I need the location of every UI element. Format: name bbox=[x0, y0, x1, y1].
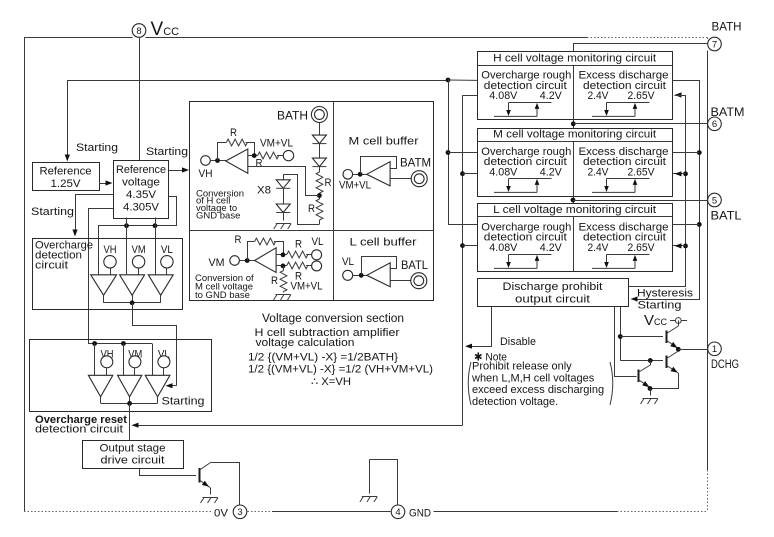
wire reset out bus bbox=[101, 403, 158, 405]
wire bus2 to M box left bbox=[463, 173, 478, 175]
svg-text:VM: VM bbox=[209, 257, 225, 269]
svg-text:VM+VL: VM+VL bbox=[291, 281, 323, 293]
border right solid bbox=[707, 51, 709, 471]
junction BATL stub bbox=[571, 198, 576, 203]
terminal VM+VL (M amp) bbox=[312, 261, 322, 271]
resistor R to VM+VL (M) bbox=[287, 262, 308, 269]
pin 5 BATL bbox=[708, 193, 722, 207]
terminal VM+VL buffer input bbox=[343, 170, 353, 180]
block Reference 1.25V bbox=[33, 163, 100, 191]
svg-text:detection voltage.: detection voltage. bbox=[472, 396, 558, 408]
Q1 collector bbox=[667, 326, 679, 334]
arrow into reference voltage box bbox=[106, 180, 113, 185]
terminal BATL bbox=[411, 273, 427, 289]
wire 4.305V tap down to overcharge reset ref bbox=[89, 209, 114, 344]
arrow into reference 1.25V box bbox=[65, 155, 70, 162]
wire VL reset out bbox=[157, 397, 159, 404]
junction DCHG node bbox=[676, 347, 681, 352]
wire X8 chain top to divider bottom bbox=[283, 175, 319, 225]
wire VH to op-amp bbox=[210, 160, 225, 162]
arrow into discharge prohibit box (hysteresis) bbox=[631, 296, 638, 301]
svg-text:6: 6 bbox=[712, 119, 717, 130]
wire into M buffer bbox=[353, 174, 367, 176]
svg-text:2.4V: 2.4V bbox=[588, 166, 610, 178]
wire L buffer feedback bbox=[362, 257, 397, 276]
wire Q1 base bbox=[620, 336, 663, 338]
svg-text:1/2 {(VM+VL) -X} =1/2 (VH+VM+V: 1/2 {(VM+VL) -X} =1/2 (VH+VM+VL) bbox=[248, 364, 433, 376]
Q3 emitter bbox=[638, 380, 650, 388]
wire M buffer feedback bbox=[361, 157, 397, 175]
stub VL circle to comparator bbox=[166, 268, 168, 275]
stub VM reset bbox=[134, 368, 136, 376]
wire to ground bbox=[650, 389, 652, 396]
Q1 base bar bbox=[666, 331, 668, 344]
terminal BATH bbox=[311, 107, 327, 123]
resistor R divider lower bbox=[316, 199, 323, 220]
wire L hysteresis arrow bbox=[672, 245, 686, 247]
stub H box to M box bbox=[573, 119, 575, 128]
block Overcharge detection circuit bbox=[33, 239, 183, 310]
block Output stage drive circuit bbox=[83, 441, 184, 469]
wire VL comp out bbox=[160, 295, 162, 303]
border top dotted segment bbox=[587, 37, 707, 39]
svg-text:drive circuit: drive circuit bbox=[101, 455, 165, 467]
svg-text:R: R bbox=[295, 239, 302, 251]
wire M feedback right leg bbox=[274, 242, 284, 255]
wire reset out to output stage bbox=[129, 403, 131, 440]
wire op-amp to summing resistor bbox=[248, 155, 258, 157]
wire starting drop to reference 1.25V box bbox=[67, 80, 69, 155]
border left bbox=[24, 38, 26, 512]
wire GND stub to pin 4 bbox=[369, 460, 397, 505]
border right dotted segment bbox=[707, 470, 709, 512]
wire BATM to pin 6 bbox=[573, 123, 707, 125]
svg-text:L cell voltage monitoring circ: L cell voltage monitoring circuit bbox=[493, 204, 656, 216]
svg-text:2.4V: 2.4V bbox=[588, 90, 610, 102]
wire to Q1/Q2 base bbox=[620, 307, 622, 361]
terminal BATM bbox=[411, 171, 427, 187]
svg-text:H cell voltage monitoring circ: H cell voltage monitoring circuit bbox=[493, 53, 656, 65]
diode X8 upper bbox=[276, 180, 290, 189]
svg-text:R: R bbox=[325, 177, 332, 189]
wire H op-amp output to divider mid bbox=[248, 167, 320, 196]
wire starting tap 4.35V left to overcharge detection bbox=[76, 195, 114, 232]
wire output stage to Q4 base bbox=[140, 469, 197, 476]
svg-text:BATL: BATL bbox=[401, 260, 429, 272]
wire ref box bottom stub 1 down to comparator bbox=[126, 218, 128, 275]
wire VCC vertical from pin 8 to reference voltage box bbox=[139, 37, 141, 160]
terminal VM conversion input bbox=[230, 256, 240, 266]
wire Q4 emitter to ground bbox=[210, 488, 212, 495]
border bottom dotted mid bbox=[248, 511, 273, 513]
terminal VM comparator input bbox=[132, 256, 144, 268]
junction reset out bbox=[127, 401, 132, 406]
svg-text:voltage: voltage bbox=[122, 177, 160, 189]
wire reference voltage output to conversion box bbox=[169, 170, 185, 172]
svg-text:R: R bbox=[308, 203, 315, 215]
svg-text:VM+VL: VM+VL bbox=[260, 138, 293, 150]
svg-text:DCHG: DCHG bbox=[711, 359, 739, 371]
wire VM to op-amp bbox=[239, 260, 254, 262]
wire bus1 to M box left bbox=[448, 152, 477, 154]
wire L buffer output bbox=[390, 280, 411, 282]
comparator VL reset bbox=[145, 375, 170, 397]
junction line A / M arrow bbox=[683, 171, 688, 176]
arrow into reset comparator (Starting) bbox=[166, 383, 173, 388]
stub VM circle to comparator bbox=[138, 268, 140, 275]
diode D1 bbox=[312, 135, 326, 144]
svg-text:output circuit: output circuit bbox=[515, 294, 590, 306]
wire bus2 to L box left bbox=[463, 245, 478, 247]
wire M op-amp to VM+VL resistor bbox=[276, 265, 287, 267]
block Reference voltage 4.35V/4.305V bbox=[114, 161, 169, 219]
junction Q2/Q3 emitters bbox=[648, 386, 653, 391]
junction M out lower bbox=[281, 264, 286, 269]
divider vertical of conversion box bbox=[333, 102, 335, 301]
svg-text:8: 8 bbox=[136, 26, 141, 37]
terminal VCC discharge bbox=[670, 320, 687, 322]
op-amp U3 M cell buffer bbox=[367, 162, 390, 186]
wire to ground symbol bbox=[369, 460, 371, 494]
note parentheses bbox=[468, 362, 471, 405]
Q1 emitter bbox=[667, 341, 679, 349]
wire M hysteresis arrow bbox=[672, 173, 686, 175]
resistor R feedback M bbox=[255, 238, 276, 245]
wire rail into H box left bbox=[448, 79, 477, 81]
svg-text:Voltage conversion section: Voltage conversion section bbox=[262, 313, 404, 325]
border bottom dotted left bbox=[24, 511, 212, 513]
wire M op-amp to VL resistor bbox=[276, 254, 287, 256]
junction bus2 to L box bbox=[460, 243, 465, 248]
svg-text:detection circuit: detection circuit bbox=[35, 424, 123, 436]
border top-right dotted corner bbox=[707, 38, 709, 42]
wire bus2 bottom run to overcharge reset output bbox=[134, 425, 463, 427]
junction line B / L box tap bbox=[697, 222, 702, 227]
svg-text:BATH: BATH bbox=[712, 22, 742, 34]
block Overcharge reset detection circuit bbox=[30, 340, 212, 412]
wire line B (starting) H box to discharge prohibit bbox=[634, 81, 700, 300]
wire M box tap to line B bbox=[672, 152, 699, 154]
svg-text:R: R bbox=[256, 158, 263, 170]
terminal VH conversion input bbox=[201, 156, 211, 166]
junction bus1 / starting rail bbox=[446, 78, 451, 83]
Q2 emitter bbox=[667, 366, 679, 374]
terminal VH reset input bbox=[101, 356, 113, 368]
arrow into overcharge detection box bbox=[72, 230, 77, 237]
svg-text:1.25V: 1.25V bbox=[51, 178, 82, 190]
wire feedback right leg bbox=[246, 143, 255, 156]
svg-text:M cell voltage monitoring circ: M cell voltage monitoring circuit bbox=[493, 129, 656, 141]
junction BATM stub bbox=[571, 121, 576, 126]
svg-text:VCC: VCC bbox=[644, 312, 668, 329]
terminal VH comparator input bbox=[104, 256, 116, 268]
svg-text:when L,M,H cell voltages: when L,M,H cell voltages bbox=[471, 372, 595, 384]
wire into L buffer bbox=[353, 275, 367, 277]
pin 7 BATH bbox=[708, 37, 722, 51]
svg-text:Prohibit release only: Prohibit release only bbox=[472, 361, 572, 373]
wire overcharge out to reset starting input bbox=[133, 303, 177, 386]
junction reset ref VM bbox=[121, 341, 126, 346]
Q4 base bar bbox=[199, 468, 201, 483]
resistor R to VL bbox=[287, 251, 308, 258]
svg-text:voltage calculation: voltage calculation bbox=[256, 337, 355, 349]
svg-text:Reference: Reference bbox=[116, 164, 166, 176]
wire 4.305V ref rail in reset box bbox=[88, 343, 152, 345]
wire ref box bottom stub 2 down to comparator bbox=[155, 218, 157, 275]
svg-text:VL: VL bbox=[342, 256, 354, 268]
svg-text:Starting: Starting bbox=[31, 206, 74, 218]
svg-text:4.2V: 4.2V bbox=[540, 90, 563, 102]
terminal VM+VL (H amp) bbox=[283, 150, 293, 160]
pin 3 0V bbox=[233, 505, 247, 519]
junction Q1 base tap bbox=[618, 334, 623, 339]
comparator VH reset bbox=[88, 375, 112, 397]
svg-text:GND: GND bbox=[409, 508, 431, 520]
svg-text:2.4V: 2.4V bbox=[588, 242, 610, 254]
svg-text:7: 7 bbox=[712, 39, 717, 50]
svg-text:4.08V: 4.08V bbox=[489, 242, 518, 254]
Q2 collector bbox=[667, 351, 679, 359]
wire ref to reset comp VM bbox=[123, 344, 125, 376]
junction VM feedback bbox=[245, 258, 250, 263]
wire to pin 1 bbox=[678, 349, 707, 351]
block M cell voltage monitoring circuit bbox=[478, 129, 673, 197]
junction Q3 collector / Q2 base bbox=[648, 358, 653, 363]
op-amp U1 H-cell subtraction bbox=[226, 149, 248, 173]
stub M box to L box bbox=[573, 196, 575, 204]
svg-text:Starting: Starting bbox=[162, 396, 205, 408]
svg-text:Output stage: Output stage bbox=[100, 443, 166, 455]
svg-text:4.2V: 4.2V bbox=[540, 242, 563, 254]
arrow into H box excess discharge bbox=[675, 92, 682, 97]
wire M feedback left leg bbox=[248, 242, 255, 261]
wire to Q3 base bbox=[614, 307, 616, 376]
svg-text:2.65V: 2.65V bbox=[628, 90, 656, 102]
pin 8 VCC bbox=[132, 24, 146, 38]
svg-text:1/2 {(VM+VL) -X} =1/2BATH}: 1/2 {(VM+VL) -X} =1/2BATH} bbox=[248, 352, 398, 364]
arrow into bus2 (Disable) bbox=[465, 344, 472, 349]
wire bus1 to L box left bbox=[448, 224, 477, 226]
resistor R to ground (M amp) bbox=[280, 271, 287, 292]
svg-text:L cell buffer: L cell buffer bbox=[350, 237, 417, 249]
diode X8 lower bbox=[276, 204, 290, 213]
block voltage conversion section bbox=[190, 102, 434, 301]
wire D1 to D2 bbox=[319, 144, 321, 159]
Q3 collector bbox=[638, 365, 650, 373]
comparator VM overcharge bbox=[120, 275, 145, 296]
wire Q2 emitter to ground node bbox=[650, 373, 679, 389]
svg-text:Starting: Starting bbox=[638, 300, 682, 312]
border bottom solid right bbox=[434, 511, 618, 513]
svg-text:to GND base: to GND base bbox=[195, 290, 250, 301]
junction L buffer feedback bbox=[359, 273, 364, 278]
svg-text:5: 5 bbox=[712, 195, 717, 206]
pin 6 BATM bbox=[708, 117, 722, 131]
junction M out upper bbox=[281, 252, 286, 257]
wire VM comp out bbox=[132, 295, 134, 303]
junction VH feedback bbox=[215, 158, 220, 163]
terminal VL buffer input bbox=[343, 270, 353, 280]
wire disable to bus2 bbox=[467, 307, 492, 347]
svg-text:2.65V: 2.65V bbox=[628, 166, 656, 178]
svg-text:1: 1 bbox=[712, 344, 717, 355]
comparator VL overcharge bbox=[148, 275, 173, 296]
wire 4.35V tap to comparator refs bbox=[99, 197, 177, 275]
wire ref to reset comp VL bbox=[152, 344, 154, 376]
wire M buffer output bbox=[390, 178, 411, 180]
terminal VL comparator input bbox=[161, 256, 173, 268]
wire Q2 base bbox=[620, 360, 663, 362]
junction overcharge out bbox=[130, 300, 135, 305]
svg-text:VH: VH bbox=[199, 168, 213, 180]
wire D2 to R bbox=[319, 167, 321, 172]
svg-text:4.305V: 4.305V bbox=[123, 202, 160, 214]
wire BATL to pin 5 bbox=[573, 200, 708, 202]
wire VM reset out bbox=[129, 397, 131, 404]
comparator VM reset bbox=[118, 375, 142, 397]
junction H out / feedback bbox=[252, 153, 257, 158]
svg-text:Hysteresis: Hysteresis bbox=[637, 288, 694, 300]
resistor R to VM+VL bbox=[258, 152, 279, 159]
svg-text:Starting: Starting bbox=[146, 146, 188, 158]
terminal VL reset input bbox=[158, 356, 170, 368]
border bottom solid to pin4 bbox=[272, 511, 391, 513]
wire ref to reset comp VH bbox=[94, 344, 96, 376]
wire to X8 diodes bbox=[283, 174, 285, 179]
divider horizontal of conversion box bbox=[190, 230, 435, 232]
svg-text:Disable: Disable bbox=[500, 336, 536, 348]
svg-text:VL: VL bbox=[312, 236, 324, 248]
svg-text:0V: 0V bbox=[214, 508, 229, 520]
border top left segment bbox=[24, 37, 133, 39]
junction line B / M box tap bbox=[697, 150, 702, 155]
wire bus2 vertical (disable net) bbox=[462, 95, 464, 425]
border bottom dotted right bbox=[617, 511, 707, 513]
svg-text:∴ X=VH: ∴ X=VH bbox=[311, 376, 351, 388]
svg-text:M cell buffer: M cell buffer bbox=[349, 136, 419, 148]
ground below Q2/Q3 bbox=[643, 398, 658, 400]
svg-text:4.08V: 4.08V bbox=[489, 90, 518, 102]
svg-text:VM+VL: VM+VL bbox=[339, 180, 371, 192]
wire bus2 to H box left bbox=[463, 95, 478, 97]
wire VH comp out bbox=[103, 295, 105, 303]
svg-text:VCC: VCC bbox=[151, 19, 180, 40]
pin 1 DCHG bbox=[708, 342, 722, 356]
svg-text:BATM: BATM bbox=[400, 158, 431, 170]
wire bus1 vertical bbox=[448, 80, 450, 224]
arrow into voltage conversion box bbox=[182, 167, 189, 172]
block Discharge prohibit output circuit bbox=[478, 279, 629, 307]
junction bus1 to M box bbox=[446, 150, 451, 155]
Q4 collector bbox=[200, 462, 212, 470]
svg-text:VM: VM bbox=[132, 244, 146, 256]
svg-text:R: R bbox=[230, 127, 237, 139]
junction reset ref VH bbox=[92, 341, 97, 346]
junction ref rail / VM comparator ref bbox=[124, 223, 129, 228]
wire L box tap to line B bbox=[672, 224, 699, 226]
svg-text:4.2V: 4.2V bbox=[540, 166, 563, 178]
stub VH circle to comparator bbox=[110, 268, 112, 275]
block L cell voltage monitoring circuit bbox=[478, 204, 673, 272]
wire BATH to diode chain bbox=[319, 123, 321, 136]
wire Q4 collector to pin 3 bbox=[211, 463, 239, 506]
ground below M amp resistor bbox=[276, 294, 291, 296]
junction ref rail / VL comparator ref bbox=[153, 223, 158, 228]
svg-text:circuit: circuit bbox=[35, 260, 68, 272]
op-amp U4 L cell buffer bbox=[367, 263, 390, 287]
comparator VH overcharge bbox=[91, 275, 117, 296]
svg-text:4.08V: 4.08V bbox=[489, 166, 518, 178]
svg-text:Starting: Starting bbox=[76, 142, 118, 154]
border top middle segment bbox=[146, 37, 588, 39]
svg-text:Discharge prohibit: Discharge prohibit bbox=[503, 281, 603, 293]
block H cell voltage monitoring circuit bbox=[478, 52, 673, 120]
wire overcharge out bus bbox=[104, 302, 161, 304]
svg-text:R: R bbox=[271, 275, 278, 287]
stub VL reset bbox=[163, 368, 165, 376]
op-amp U2 M-cell conversion bbox=[255, 248, 277, 273]
resistor R divider upper bbox=[316, 172, 323, 193]
svg-text:4.35V: 4.35V bbox=[126, 189, 157, 201]
svg-text:3: 3 bbox=[237, 507, 242, 518]
svg-text:GND base: GND base bbox=[196, 211, 240, 222]
ground at GND stub bbox=[362, 496, 377, 498]
wire to vertical R bbox=[283, 266, 285, 271]
junction line A / L arrow bbox=[683, 244, 688, 249]
svg-text:X8: X8 bbox=[257, 185, 271, 197]
Q4 emitter bbox=[200, 480, 211, 488]
ground below Q4 bbox=[203, 497, 218, 499]
stub VH reset bbox=[106, 368, 108, 376]
Q2 base bar bbox=[666, 356, 668, 369]
wire VH reset out bbox=[100, 397, 102, 404]
svg-text:VL: VL bbox=[161, 244, 173, 256]
terminal VL (M amp) bbox=[312, 250, 322, 260]
diode D2 bbox=[312, 158, 326, 167]
svg-text:2.65V: 2.65V bbox=[628, 242, 656, 254]
wire reference to reference-voltage box bbox=[99, 183, 108, 185]
resistor R feedback H bbox=[226, 139, 247, 146]
Q3 base bar bbox=[638, 370, 640, 383]
junction M buffer feedback bbox=[358, 172, 363, 177]
junction divider mid bbox=[317, 193, 322, 198]
svg-text:BATH: BATH bbox=[277, 111, 308, 123]
svg-text:BATL: BATL bbox=[711, 211, 743, 223]
wire pin7 to H box top bbox=[574, 44, 708, 52]
arrow into overcharge reset output line bbox=[132, 423, 139, 428]
terminal VM reset input bbox=[129, 356, 141, 368]
svg-text:exceed excess discharging: exceed excess discharging bbox=[472, 384, 604, 396]
svg-text:4: 4 bbox=[395, 507, 400, 518]
svg-text:R: R bbox=[235, 234, 242, 246]
pin 4 GND bbox=[391, 505, 405, 519]
ground below X8 diodes bbox=[276, 223, 291, 225]
svg-text:Reference: Reference bbox=[40, 166, 92, 178]
wire starting rail horizontal bbox=[67, 80, 448, 82]
wire feedback left leg bbox=[218, 143, 227, 161]
svg-text:VH: VH bbox=[104, 244, 117, 256]
junction bus2 to M box bbox=[460, 171, 465, 176]
